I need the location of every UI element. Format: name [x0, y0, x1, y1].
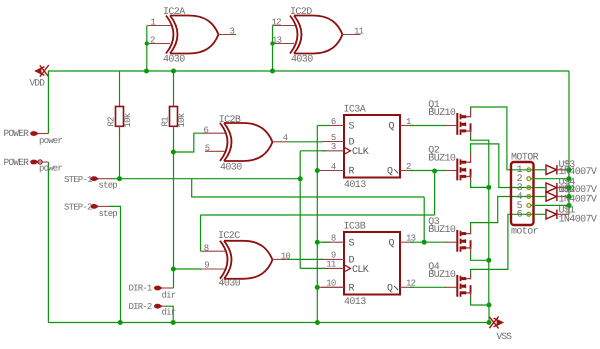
pin 1 pad of MOTOR: [527, 168, 531, 172]
pin wires of U$1: [534, 213, 546, 215]
VSS supply symbol (right arrow with fletching): [489, 317, 502, 329]
wire H1 riser down to Q3 gate net: [423, 197, 425, 242]
resistor R1 10k: [173, 71, 175, 99]
wire STEP-1 net to CLK riser: [120, 178, 301, 180]
svg-text:IC3B: IC3B: [344, 222, 366, 233]
svg-text:6: 6: [331, 117, 336, 127]
wire IC3A S pin from chain: [317, 125, 330, 127]
pin 6 stub of IC2B: [205, 150, 225, 152]
svg-text:dir: dir: [162, 290, 176, 300]
wire Q2 drain loop to MOTOR pin3: [466, 161, 471, 163]
pin 2 pad of MOTOR: [527, 177, 531, 181]
node junction rail x=146.5: [144, 69, 149, 74]
VSS rail (bottom) y=322.5: [48, 322, 489, 324]
node junction DIR net / IC2C pin9: [171, 267, 176, 272]
connector DIR-2: [154, 304, 161, 309]
svg-text:IC2D: IC2D: [290, 7, 312, 18]
pin 8 of IC2C: [201, 250, 226, 252]
svg-text:dir: dir: [162, 308, 176, 318]
wire MOTOR pin2 to VDD column: [531, 178, 569, 180]
node junction VDD column y=178.7: [567, 176, 572, 181]
wire DIR-2 to VSS rail: [166, 306, 173, 322]
clock triangle of IC3A: [344, 147, 351, 154]
svg-text:R2: R2: [107, 117, 117, 127]
node junction VDD column y=169.8: [567, 167, 572, 172]
pin 13 of IC2D: [273, 43, 295, 45]
diode U$3 1N4007: [546, 165, 557, 174]
wire VDD feed down to POWER pin: [47, 71, 49, 134]
svg-text:DIR-2: DIR-2: [129, 302, 152, 312]
svg-text:IC2B: IC2B: [219, 115, 241, 126]
pin 5 pad of MOTOR: [527, 204, 531, 208]
svg-text:4013: 4013: [344, 297, 366, 308]
svg-text:POWER: POWER: [4, 128, 30, 139]
svg-text:Q: Q: [389, 122, 395, 133]
wire rail corner down at x=569: [568, 71, 570, 214]
diode U$4 1N4007: [546, 183, 557, 192]
wire IC2C output to IC3B D pin: [288, 258, 323, 260]
pin wire STEP-1: [98, 178, 112, 180]
pin stubs of IC3A: [322, 125, 344, 127]
wire Q3 drain loop to MOTOR pin4: [466, 233, 471, 235]
svg-text:6: 6: [204, 126, 209, 136]
svg-text:11: 11: [354, 27, 364, 37]
node junction IC3A Qnot / Q2 gate: [432, 169, 437, 174]
svg-text:S: S: [349, 238, 355, 249]
svg-text:S: S: [349, 122, 355, 133]
wire STEP net drop x=191.7 to H1: [192, 179, 425, 197]
node junction STEP-1 / CLK riser: [298, 176, 303, 181]
pin wire STEP-2: [98, 205, 110, 207]
wire IC3B Q to Q3 gate: [410, 241, 446, 243]
wire R2 bottom to STEP-1 junction: [119, 132, 121, 179]
pin 3 output of IC2A: [219, 34, 237, 36]
node junction IC3B S: [315, 240, 320, 245]
wire Q3 source to source chain: [466, 247, 471, 249]
pin 11 output of IC2D: [343, 34, 361, 36]
svg-text:10k: 10k: [123, 113, 133, 127]
svg-text:6: 6: [517, 210, 523, 221]
svg-text:step: step: [99, 181, 118, 191]
pin 1 of IC2A: [148, 25, 172, 27]
pin 9 of IC2C: [201, 268, 225, 270]
wire riser to IC3A CLK: [300, 150, 326, 152]
transistor Q4 BUZ10: [456, 275, 471, 297]
svg-text:R: R: [349, 167, 355, 178]
node junction source chain y=305: [487, 303, 492, 308]
pin stubs of IC3B: [322, 241, 344, 243]
svg-text:4030: 4030: [220, 162, 242, 173]
xor gate IC2A body: [166, 16, 219, 54]
wire MOTOR pin5 to VDD column: [531, 204, 569, 206]
node junction source chain y=187.4: [486, 185, 491, 190]
svg-text:5: 5: [205, 144, 210, 154]
node junction IC2D pin13: [270, 41, 274, 45]
wire riser to IC3B CLK: [300, 267, 326, 269]
svg-text:STEP-2: STEP-2: [64, 203, 92, 213]
wire Q4 source to source chain: [466, 292, 471, 294]
wire Q1 source to source chain: [466, 130, 471, 132]
svg-text:DIR-1: DIR-1: [129, 284, 152, 294]
xor gate IC2B body: [220, 123, 273, 161]
svg-text:4013: 4013: [344, 180, 366, 191]
node junction IC2A pin2: [145, 41, 149, 45]
node junction VDD column y=187.6: [567, 185, 572, 190]
wire IC2D inputs to VDD rail: [272, 26, 274, 72]
wire IC3B Qnot to Q4 gate: [410, 286, 446, 288]
wire IC2B output to IC3A D pin: [288, 141, 323, 143]
connector MOTOR box: [511, 162, 534, 225]
pin wires of U$4: [534, 187, 546, 189]
pin 12 of IC2D: [273, 25, 296, 27]
node junction rail x=173.5: [171, 69, 176, 74]
connector DIR-1: [154, 286, 161, 291]
node junction VDD column y=196.5: [567, 194, 572, 199]
svg-text:1N4007V: 1N4007V: [559, 167, 597, 178]
diode U$1 1N4007: [546, 210, 557, 219]
wire left vertical POWER2 to VSS rail: [47, 162, 49, 323]
svg-text:BUZ10: BUZ10: [428, 154, 456, 165]
pin wires of U$2: [534, 196, 546, 198]
svg-text:VSS: VSS: [497, 331, 513, 342]
svg-text:CLK: CLK: [352, 265, 369, 276]
wire STEP-1 riser x=300.2 to both CLK pins: [299, 151, 301, 269]
wire IC3B R pin from chain (red): [317, 286, 344, 288]
svg-text:1N4007V: 1N4007V: [559, 194, 597, 205]
svg-text:1N4007V: 1N4007V: [559, 215, 597, 226]
wire IC3A R pin from chain (red): [317, 170, 344, 172]
svg-text:POWER: POWER: [4, 157, 30, 168]
pin wire DIR-1: [161, 287, 174, 289]
wire IC3B S pin from chain: [317, 241, 330, 243]
svg-text:R1: R1: [161, 117, 171, 127]
svg-text:step: step: [99, 209, 118, 219]
svg-text:BUZ10: BUZ10: [428, 270, 456, 281]
resistor R2 10k: [119, 71, 121, 99]
connector STEP-2: [90, 204, 97, 209]
pin 5 of IC2B: [203, 132, 225, 134]
wire QnotA net down to H3: [434, 171, 436, 215]
wire IC3A Q to Q1 gate: [410, 125, 446, 127]
wire source chain vertical: [488, 187, 490, 260]
svg-text:3: 3: [230, 27, 235, 37]
wire Q1 drain loop to MOTOR pin1: [466, 116, 471, 118]
node junction Q3 gate net: [422, 240, 427, 245]
wire H3 y=215 QnotA to IC2C pin8: [201, 214, 435, 216]
pin 2 of IC2A: [148, 43, 171, 45]
svg-text:2: 2: [150, 36, 155, 46]
wire Q4 drain loop to MOTOR pin6: [466, 278, 471, 280]
node VSS rail dot x=173.2 (DIR-2): [171, 320, 176, 325]
pin 6 pad of MOTOR: [527, 212, 531, 216]
pin 3 pad of MOTOR: [527, 186, 531, 190]
svg-text:Q: Q: [387, 284, 393, 295]
wire DIR net jog to IC2B pin5: [173, 133, 204, 152]
svg-text:9: 9: [204, 260, 209, 270]
connector POWER (lower): [30, 160, 37, 165]
transistor Q2 BUZ10: [456, 159, 471, 181]
wire set/reset chain vertical x=317.3: [316, 126, 318, 323]
wire VDD rail y=71: [48, 70, 569, 72]
svg-text:IC2C: IC2C: [218, 231, 240, 242]
svg-text:Q: Q: [387, 167, 393, 178]
pin wires of U$3: [534, 169, 546, 171]
svg-text:3: 3: [331, 142, 336, 152]
svg-text:power: power: [39, 164, 62, 174]
flip-flop IC3A 4013 box: [344, 115, 400, 178]
svg-text:CLK: CLK: [352, 147, 369, 158]
transistor Q1 BUZ10: [456, 113, 471, 135]
xor gate IC2C body: [220, 241, 273, 279]
svg-text:4030: 4030: [219, 279, 241, 290]
connector STEP-1: [90, 176, 97, 181]
svg-text:8: 8: [331, 234, 336, 244]
svg-text:motor: motor: [511, 227, 539, 238]
pin 10 output of IC2C: [273, 258, 289, 260]
clock triangle of IC3B: [344, 265, 351, 272]
transistor Q3 BUZ10: [456, 230, 471, 252]
wire IC2C pin8 riser: [200, 215, 202, 251]
svg-text:power: power: [39, 136, 62, 146]
svg-text:4: 4: [283, 133, 288, 143]
flip-flop IC3B 4013 box: [344, 232, 400, 295]
node junction R1/IC2B pin6 x=173.5 y=152: [171, 150, 176, 155]
VDD supply symbol (left arrow with fletching): [36, 65, 49, 77]
wire Q2 source to source chain: [466, 176, 471, 178]
node VSS rail end junction: [487, 320, 492, 325]
svg-text:8: 8: [204, 243, 209, 253]
node junction STEP-1 x=119.5: [117, 176, 122, 181]
node VSS rail dot x=120 (STEP-2): [118, 320, 123, 325]
wire R1 bottom vertical (DIR net): [173, 132, 175, 289]
xor gate IC2D body: [290, 16, 343, 54]
connector POWER (upper): [30, 131, 37, 136]
svg-text:BUZ10: BUZ10: [428, 108, 456, 119]
pin 4 pad of MOTOR: [527, 195, 531, 199]
svg-text:1: 1: [151, 18, 156, 28]
svg-text:MOTOR: MOTOR: [511, 153, 539, 164]
wire IC3A Qnot to Q2 gate: [410, 170, 446, 172]
svg-text:R: R: [349, 284, 355, 295]
svg-text:4030: 4030: [291, 55, 313, 66]
wire DIR net to IC2C pin 9: [173, 268, 202, 270]
wire STEP-2 to VSS rail: [109, 206, 121, 322]
diode U$2 1N4007: [546, 192, 557, 201]
svg-text:10k: 10k: [177, 113, 187, 127]
svg-text:IC3A: IC3A: [344, 105, 366, 116]
pin wire DIR-2: [161, 305, 167, 307]
node junction IC3A R: [315, 168, 320, 173]
node junction IC3B R: [315, 285, 320, 290]
node junction rail x=272.5: [270, 69, 275, 74]
svg-text:BUZ10: BUZ10: [428, 225, 456, 236]
svg-text:IC2A: IC2A: [163, 7, 185, 18]
node VSS rail dot x=317.5: [315, 320, 320, 325]
node junction VDD column y=205.4: [567, 203, 572, 208]
pin 4 output of IC2B to IC3A D: [273, 141, 289, 143]
node junction source chain y=260.3: [486, 258, 491, 263]
svg-text:Q: Q: [389, 238, 395, 249]
svg-text:VDD: VDD: [30, 78, 46, 89]
svg-text:STEP-1: STEP-1: [64, 175, 92, 185]
svg-text:11: 11: [326, 260, 336, 270]
wire IC2A inputs to VDD rail: [146, 26, 148, 72]
svg-text:4030: 4030: [163, 55, 185, 66]
